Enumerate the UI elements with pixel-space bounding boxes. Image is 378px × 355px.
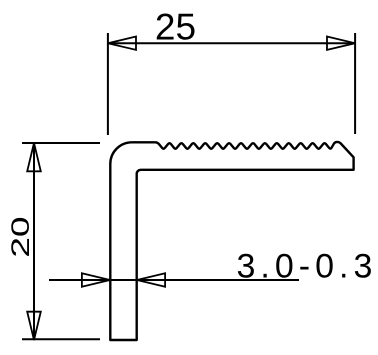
svg-text:20: 20 bbox=[6, 216, 34, 257]
dim 3.0-0.3: middle segment bbox=[110, 279, 137, 281]
dim 20: bottom extension line bbox=[22, 338, 100, 340]
dim 3.0-0.3: right arrow (points left) bbox=[137, 273, 165, 286]
svg-text:3.0-0.3: 3.0-0.3 bbox=[237, 248, 378, 286]
dim 20: dimension line bbox=[33, 143, 35, 340]
dim 20: top arrow bbox=[27, 143, 41, 171]
dim 25: left extension line bbox=[107, 33, 109, 135]
dim 25: right arrow bbox=[327, 37, 355, 50]
dim 3.0-0.3: left leader line bbox=[49, 279, 110, 281]
dim 25: dimension line bbox=[108, 42, 355, 44]
dim 20: top extension line bbox=[22, 142, 100, 144]
dim 20: bottom arrow bbox=[27, 312, 41, 340]
svg-text:25: 25 bbox=[155, 7, 196, 48]
dim 25: right extension line bbox=[354, 33, 356, 134]
dim 25: left arrow bbox=[108, 37, 136, 50]
dim 3.0-0.3: right leader line bbox=[137, 279, 299, 281]
L-profile outline bbox=[110, 142, 353, 340]
dim 3.0-0.3: left arrow (points right) bbox=[82, 273, 110, 286]
